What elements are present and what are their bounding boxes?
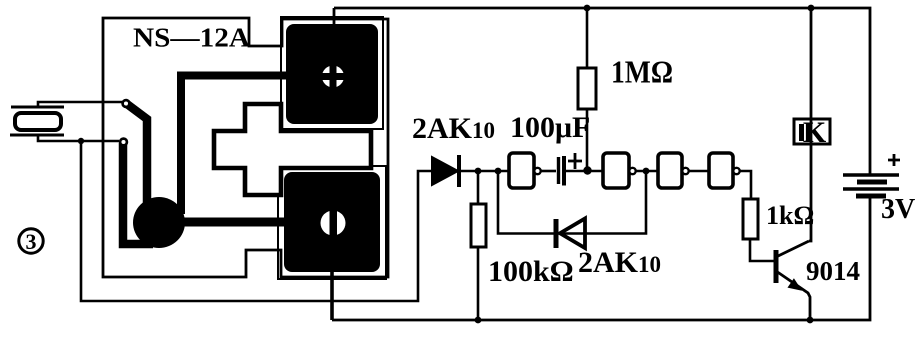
bubble U1a <box>534 168 540 174</box>
node feedback return junction <box>643 168 650 175</box>
transistor Q1 9014 <box>776 241 810 321</box>
svg-text:9014: 9014 <box>806 256 860 286</box>
label battery plus <box>888 154 900 166</box>
svg-text:3V: 3V <box>881 194 915 225</box>
wire relay to collector <box>809 144 811 241</box>
outline around transducer B2 <box>278 166 386 279</box>
gate U1d <box>709 153 733 188</box>
capacitor C1 100uF <box>559 153 604 186</box>
node diode output / 100k junction <box>475 168 482 175</box>
blob component on module <box>133 197 185 248</box>
svg-text:NS—12A: NS—12A <box>133 23 251 53</box>
battery GB 3V <box>843 175 899 196</box>
node piezo bottom junction <box>78 138 84 144</box>
svg-text:2AK10: 2AK10 <box>578 246 661 279</box>
svg-text:1kΩ: 1kΩ <box>766 201 814 230</box>
wire U1a to capacitor <box>541 170 556 173</box>
module NS-12A outline <box>103 18 388 277</box>
svg-text:1MΩ: 1MΩ <box>611 54 673 90</box>
trace from terminal 2 to blob <box>123 143 153 244</box>
terminal 2 <box>120 139 127 146</box>
node R2 top bus <box>584 5 591 12</box>
transducer B1 top (black square) <box>286 24 378 124</box>
wire piezo top lead to terminal 1 <box>38 102 122 107</box>
svg-text:100kΩ: 100kΩ <box>488 255 574 288</box>
label circled 3 <box>19 229 43 254</box>
bubble U1d <box>733 168 739 174</box>
cross shaped pad <box>214 104 371 195</box>
gate U1b <box>603 153 629 188</box>
bubble U1c <box>682 168 688 174</box>
node capacitor / R2 junction <box>583 166 591 174</box>
gate U1a <box>509 153 534 188</box>
wire U1c to U1d <box>689 170 709 173</box>
transducer B2 bottom (black square) <box>284 172 380 272</box>
wire bottom bus <box>332 196 870 320</box>
wire piezo bottom lead to terminal 2 <box>38 135 119 141</box>
wire bus to transducer B1 <box>333 8 336 24</box>
wire U1b to U1c <box>636 170 658 173</box>
resistor R2 1M <box>578 8 596 171</box>
resistor R3 1k <box>743 199 774 261</box>
trace from terminal 1 to blob <box>127 104 147 206</box>
wire transducer B2 lead to bottom bus <box>330 272 334 320</box>
node feedback junction <box>495 168 502 175</box>
outline around transducer B1 <box>281 17 383 129</box>
wire relay branch top <box>810 8 813 119</box>
trace blob to transducer B2 <box>183 218 286 227</box>
trace blob to transducer B1 <box>181 76 287 215</box>
wire receive line to diode V1 <box>81 141 432 301</box>
svg-text:2AK10: 2AK10 <box>412 112 495 145</box>
terminal 1 <box>123 100 130 107</box>
node relay top bus <box>808 5 815 12</box>
svg-text:3: 3 <box>26 229 37 254</box>
resistor R1 100k <box>471 171 486 320</box>
svg-text:K: K <box>803 116 827 149</box>
piezo top electrode <box>11 106 64 109</box>
diode V1 2AK10 <box>432 155 509 187</box>
relay K coil <box>794 116 830 149</box>
bubble U1b <box>629 168 635 174</box>
diode V2 2AK10 feedback <box>556 219 585 249</box>
svg-text:100μF: 100μF <box>510 111 590 144</box>
piezo element body <box>15 113 61 130</box>
wire top bus <box>334 8 870 174</box>
gate U1c <box>658 153 682 188</box>
node emitter to bus <box>807 317 814 324</box>
wire feedback path <box>498 171 646 234</box>
piezo bottom electrode <box>10 134 64 137</box>
wire U1d to R3 <box>740 171 751 199</box>
node R1 to bus <box>475 317 482 324</box>
